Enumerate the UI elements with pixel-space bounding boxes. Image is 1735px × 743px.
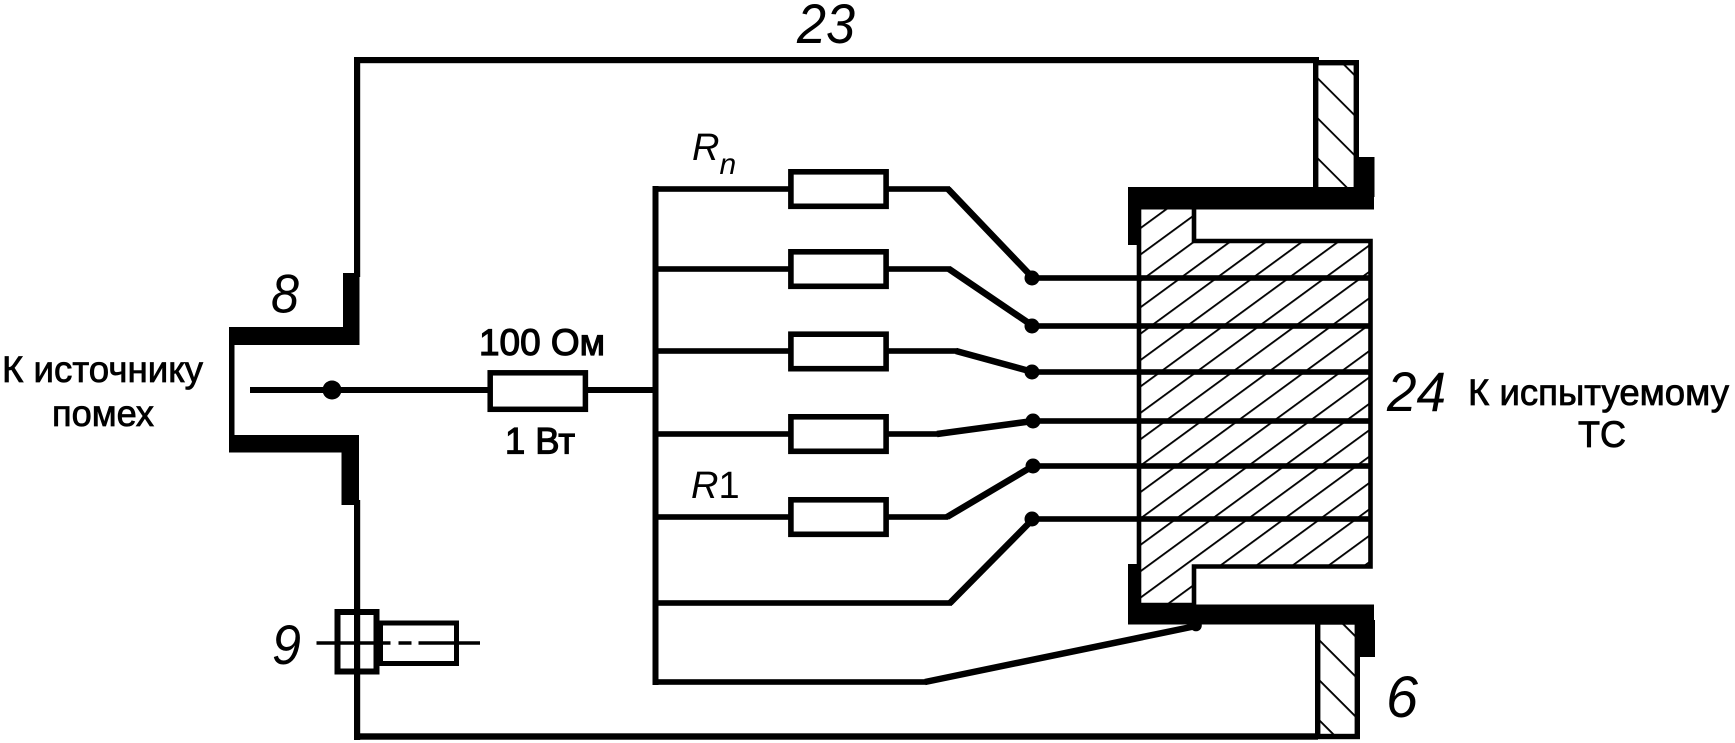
- wire branch 3 left: [655, 348, 791, 354]
- shell bottom-left stub: [1128, 564, 1140, 624]
- screw 9 shaft: [381, 623, 457, 664]
- wire branch 6 diagonal: [950, 519, 1033, 603]
- contact node 6: [1025, 512, 1040, 527]
- svg-text:помех: помех: [52, 393, 154, 434]
- screw 9 head: [338, 612, 377, 672]
- resistor 100 Om box: [490, 373, 585, 410]
- wire branch 5 diagonal: [947, 466, 1033, 517]
- resistor R1 (branch 5): [791, 500, 886, 535]
- block hatched body (pin carrier): [1139, 207, 1371, 605]
- screw 9 axis dash-dot line: [317, 641, 481, 645]
- node on shell bottom: [1190, 620, 1202, 632]
- connector 8 top bar: [229, 327, 359, 345]
- svg-text:9: 9: [272, 613, 301, 676]
- resistor branch 3: [791, 334, 886, 369]
- wire contact 2 to block: [1032, 323, 1371, 329]
- svg-text:К источнику: К источнику: [2, 349, 203, 390]
- connector 8 bottom stub: [342, 435, 360, 505]
- wire branch 3 right: [886, 348, 958, 354]
- svg-text:1 Вт: 1 Вт: [505, 421, 575, 462]
- contact node 2: [1025, 319, 1040, 334]
- wire branch 2 diagonal: [949, 269, 1033, 326]
- svg-text:К испытуемому: К испытуемому: [1468, 372, 1729, 413]
- insulator post top (hatched): [1316, 63, 1357, 190]
- wire contact 5 to block: [1033, 463, 1371, 469]
- node junction on pin wire: [323, 381, 342, 400]
- wire branch 7 bottom: [655, 679, 927, 685]
- contact node 1: [1025, 271, 1040, 286]
- wire branch 1 right: [886, 186, 950, 192]
- svg-text:6: 6: [1386, 665, 1419, 730]
- wire branch 4 diagonal: [937, 421, 1033, 434]
- svg-text:R1: R1: [691, 465, 740, 507]
- wire contact 4 to block: [1033, 418, 1371, 424]
- wire branch 5 right: [886, 514, 948, 520]
- wire bottom net: [354, 733, 1318, 739]
- shell top bar: [1128, 187, 1374, 210]
- resistor branch 4: [791, 417, 886, 452]
- resistor branch 2: [791, 252, 886, 286]
- wire branch 6: [655, 600, 952, 606]
- connector 8 left wall: [229, 327, 235, 453]
- wire resistor to bus: [585, 387, 656, 393]
- shell bottom-right stub: [1355, 620, 1375, 657]
- wire left vertical lower: [354, 500, 360, 740]
- wire branch 2 left: [655, 266, 791, 272]
- wire contact 6 to block: [1032, 516, 1371, 522]
- shell bottom bar: [1128, 605, 1374, 625]
- wire branch 7 diagonal to shell: [925, 626, 1196, 682]
- wire contact 3 to block: [1032, 369, 1371, 375]
- wire branch 1 left: [655, 186, 791, 192]
- connector 8 top stub: [343, 273, 360, 345]
- resistor Rn (branch 1): [791, 172, 886, 207]
- svg-text:8: 8: [271, 263, 299, 325]
- svg-text:23: 23: [796, 0, 855, 55]
- wire contact 1 to block: [1032, 275, 1371, 281]
- insulator post bottom (hatched): [1318, 622, 1358, 737]
- svg-text:100 Ом: 100 Ом: [479, 322, 605, 363]
- svg-text:ТС: ТС: [1578, 414, 1626, 455]
- wire center pin of connector 8: [250, 387, 489, 393]
- bus vertical: [653, 186, 659, 685]
- wire left vertical upper: [354, 57, 360, 277]
- wire branch 3 diagonal: [956, 351, 1033, 372]
- contact node 5: [1026, 459, 1041, 474]
- wire top net 23: [354, 57, 1319, 63]
- wire branch 2 right: [886, 266, 951, 272]
- shell top-left stub: [1128, 187, 1140, 245]
- wire branch 4 right: [886, 431, 939, 437]
- svg-text:Rn: Rn: [692, 127, 736, 181]
- wire branch 4 left: [655, 431, 791, 437]
- wire branch 5 left: [655, 514, 791, 520]
- wire branch 1 diagonal: [948, 189, 1033, 278]
- contact node 3: [1025, 365, 1040, 380]
- contact node 4: [1026, 414, 1041, 429]
- shell top-right stub: [1358, 157, 1375, 197]
- svg-text:24: 24: [1386, 360, 1446, 423]
- connector 8 bottom bar: [229, 435, 359, 453]
